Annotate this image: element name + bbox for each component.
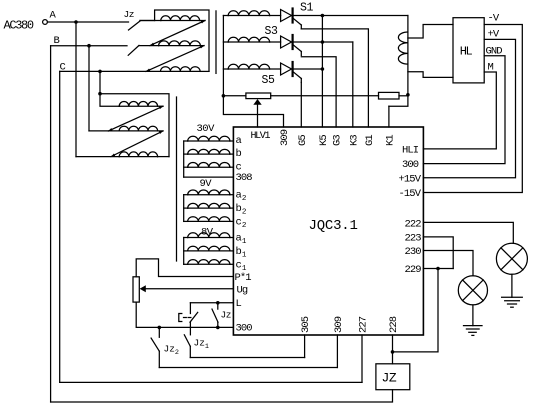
wire gate G5: [300, 82, 302, 127]
svg-text:S5: S5: [262, 74, 276, 87]
svg-text:b1: b1: [236, 246, 247, 259]
wire 228 to 229 riser: [393, 269, 439, 352]
node B junction: [87, 44, 91, 48]
wire Jz1 to 305: [190, 357, 304, 359]
lamp HL1: [496, 243, 527, 274]
thyristor S5: [281, 63, 292, 75]
svg-text:309: 309: [333, 316, 345, 333]
wire pot bottom to 300 rail: [136, 302, 233, 327]
svg-text:Jz2: Jz2: [164, 344, 180, 357]
transformer T1 primary winding A: [140, 20, 161, 22]
node AC380 input terminal: [43, 20, 48, 25]
svg-text:Jz1: Jz1: [194, 338, 210, 351]
svg-text:S1: S1: [300, 2, 314, 15]
svg-text:b2: b2: [236, 203, 247, 216]
svg-text:305: 305: [300, 316, 312, 333]
wire secondary common bus: [222, 16, 224, 96]
svg-text:HL: HL: [460, 44, 473, 58]
svg-text:-15V: -15V: [399, 188, 422, 200]
node 300/Jz2 junction: [158, 326, 162, 330]
wire T2 delta diagonal 1: [108, 106, 163, 131]
svg-text:230: 230: [405, 246, 422, 258]
node L junction: [216, 301, 220, 305]
transformer T2 primary winding 1: [100, 94, 119, 107]
wire L pin: [190, 302, 233, 304]
hall sensor HL box: [453, 18, 484, 83]
potentiometer RP2 wiper arrow: [140, 285, 146, 292]
svg-text:c2: c2: [236, 217, 247, 230]
node rail left junction: [222, 94, 226, 98]
svg-text:229: 229: [405, 264, 422, 276]
wire K1 from cathode node: [389, 95, 408, 106]
wire A drop: [75, 22, 77, 157]
thyristor S1: [281, 10, 292, 22]
svg-text:Ug: Ug: [237, 284, 248, 296]
svg-text:C: C: [60, 62, 66, 74]
wire 227 rail: [60, 381, 362, 383]
svg-text:a2: a2: [236, 190, 247, 203]
node rail right junction: [406, 93, 410, 97]
node A junction: [74, 20, 78, 24]
svg-text:300: 300: [236, 322, 253, 334]
pushbutton E lower lead: [189, 322, 191, 335]
svg-text:Jz: Jz: [124, 9, 134, 20]
pin 309 bottom stub: [336, 335, 338, 368]
lamp HL2: [458, 276, 487, 305]
transformer T1 core: [215, 11, 217, 74]
wire lamp HL1 to ground: [511, 274, 513, 297]
svg-text:b: b: [236, 148, 242, 160]
wire 308 rail: [184, 176, 234, 178]
svg-text:HLV1: HLV1: [251, 131, 271, 142]
pushbutton E blade: [190, 312, 198, 322]
svg-text:K5: K5: [318, 135, 330, 146]
transformer T2 primary winding 3: [76, 156, 119, 158]
transformer T2 core: [176, 97, 178, 261]
svg-text:G1: G1: [364, 135, 376, 146]
transformer T2 top edge: [98, 92, 102, 96]
wire B drop: [88, 46, 90, 131]
wire 229: [423, 268, 453, 270]
node C junction: [98, 70, 102, 74]
pin 228 stub: [392, 335, 394, 364]
wire S1 cathode row: [294, 15, 408, 17]
wire rail right: [399, 95, 408, 97]
relay contact Jz latch: [217, 303, 219, 309]
pin 227 stub: [361, 335, 363, 382]
wire HL -V to -15V: [423, 25, 522, 193]
wire phase A: [47, 21, 128, 23]
svg-text:228: 228: [388, 316, 400, 333]
svg-text:G3: G3: [332, 135, 344, 146]
svg-text:A: A: [50, 10, 57, 22]
wire 222 to lamp HL1: [423, 222, 513, 243]
wire B far-left drop: [50, 46, 52, 402]
wire T2 delta diagonal 2: [111, 131, 163, 157]
svg-text:-V: -V: [488, 13, 500, 25]
wire to HL primary: [407, 16, 409, 95]
wire T1 delta diagonal 1: [150, 21, 205, 46]
wire 230 to lamp HL2: [423, 251, 473, 276]
svg-text:+15V: +15V: [399, 174, 422, 186]
svg-text:223: 223: [405, 233, 422, 245]
node 228 junction: [391, 350, 395, 354]
svg-text:222: 222: [405, 219, 422, 231]
svg-text:P*1: P*1: [235, 272, 252, 284]
svg-text:+V: +V: [488, 29, 500, 41]
thyristor S3: [281, 36, 292, 48]
svg-text:GND: GND: [486, 46, 503, 58]
wire T1 top edge: [140, 20, 155, 22]
wire 30V left bus: [183, 141, 185, 177]
wire HL upper tap: [408, 25, 453, 39]
svg-text:a: a: [236, 135, 242, 147]
wire cathode bus to K5: [321, 16, 323, 128]
wire HL GND to 300: [423, 56, 505, 164]
wire rail middle: [271, 95, 379, 97]
svg-text:a1: a1: [236, 233, 247, 246]
pushbutton E symbol: [179, 314, 182, 322]
wire P*1: [136, 259, 233, 277]
svg-text:9V: 9V: [200, 178, 213, 190]
wire HL M to HLI: [423, 72, 496, 149]
svg-text:K3: K3: [348, 135, 360, 146]
wire 8V left bus: [183, 238, 185, 265]
wire lamp HL2 to ground: [472, 305, 474, 326]
potentiometer RP1 wiper arrow to HLV1: [253, 99, 261, 105]
svg-text:JZ: JZ: [382, 371, 397, 386]
wire gate G1: [301, 29, 368, 127]
svg-text:JQC3.1: JQC3.1: [309, 218, 358, 234]
wire 9V left bus: [183, 195, 185, 222]
wire phase C: [60, 70, 161, 72]
pin 305 stub: [304, 335, 306, 358]
wire phase B: [51, 45, 127, 47]
svg-text:K1: K1: [385, 135, 397, 146]
wire C drop: [99, 71, 101, 93]
svg-text:AC380: AC380: [4, 18, 34, 32]
svg-text:c1: c1: [236, 260, 247, 273]
potentiometer RP1 body: [246, 93, 271, 99]
svg-text:227: 227: [358, 316, 370, 333]
node 300/Jz junction: [216, 326, 220, 330]
svg-text:300: 300: [402, 159, 419, 171]
wire K1: [388, 106, 390, 127]
wire S3 cathode row: [294, 41, 353, 43]
transformer T1 primary winding C: [161, 67, 201, 72]
svg-text:B: B: [54, 35, 60, 47]
wire rail: [223, 95, 246, 97]
wire T1 delta diagonal 2: [146, 46, 204, 72]
ground lamp HL2: [464, 325, 483, 327]
transformer T1 secondary winding S5: [223, 68, 228, 70]
resistor R1 body: [379, 92, 400, 99]
relay coil JZ box: [376, 364, 410, 390]
transformer T1 secondary winding S1: [223, 15, 228, 17]
transformer T1 primary winding B: [139, 45, 159, 47]
transformer T1 secondary winding S3: [223, 41, 228, 43]
wire Jz2 to 309: [159, 367, 337, 369]
svg-text:M: M: [488, 62, 494, 74]
svg-text:S3: S3: [265, 25, 279, 38]
svg-text:L: L: [236, 298, 242, 310]
wire gate G3: [301, 57, 336, 127]
relay contact Jz2: [158, 327, 160, 337]
node 229 junction: [436, 267, 440, 271]
svg-text:G5: G5: [297, 135, 309, 146]
ground lamp HL1: [502, 296, 523, 298]
wire HL +V to +15V: [423, 39, 515, 177]
pushbutton E upper lead: [189, 303, 191, 314]
op-amp U1 JQC3.1 trigger board box: [233, 127, 423, 335]
wire Ug: [146, 288, 234, 290]
svg-text:Jz: Jz: [221, 310, 231, 321]
svg-text:309: 309: [279, 129, 291, 146]
svg-text:30V: 30V: [197, 123, 216, 135]
svg-text:308: 308: [236, 172, 253, 184]
svg-text:HLI: HLI: [402, 145, 419, 157]
potentiometer RP2 body: [133, 277, 139, 302]
transformer T2 primary winding 2: [89, 130, 119, 132]
wire S5 cathode row: [294, 68, 323, 70]
wire C far-left drop: [59, 71, 61, 382]
wire 223: [423, 237, 453, 269]
wire 309 branch: [223, 96, 283, 127]
wire K3: [352, 42, 354, 127]
wire HL lower tap: [408, 72, 453, 78]
relay contact Jz1: [184, 335, 190, 347]
wire JZ bottom rail: [51, 390, 393, 402]
inductor HL primary coil: [398, 32, 408, 64]
